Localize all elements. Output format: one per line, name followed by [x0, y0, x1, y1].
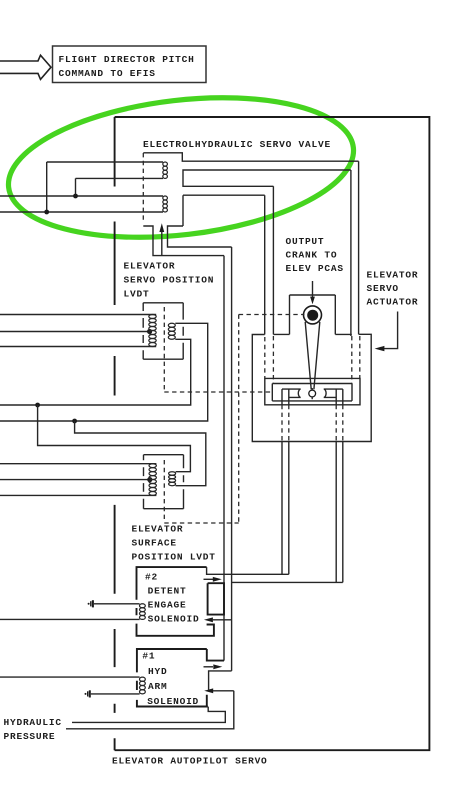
- wire: LVDT1 secondary bottom return: [0, 339, 191, 405]
- actuator outer body steps: [252, 334, 371, 441]
- coil L2: torque motor lower winding: [163, 196, 168, 212]
- coil: LVDT2 secondary: [169, 472, 176, 486]
- svg-text:ELEVATOR: ELEVATOR: [132, 524, 184, 535]
- svg-text:SOLENOID: SOLENOID: [147, 696, 199, 707]
- wire: valve output B: [272, 186, 274, 383]
- svg-text:ELEV PCAS: ELEV PCAS: [286, 263, 344, 274]
- green highlight ellipse annotation: [1, 81, 361, 255]
- connector stub: [85, 690, 91, 697]
- svg-text:SERVO POSITION: SERVO POSITION: [124, 275, 215, 286]
- wire: branch to LVDT2 secondary top: [38, 405, 191, 472]
- valve body outline top: [143, 153, 358, 161]
- svg-text:ELECTROLHYDRAULIC SERVO VALVE: ELECTROLHYDRAULIC SERVO VALVE: [143, 139, 331, 150]
- label: HYDRAULIC PRESSURE: [4, 717, 62, 742]
- wire: valve output A: [264, 195, 266, 378]
- piston seal left flag: [282, 389, 301, 397]
- cylinder outer: [265, 378, 360, 404]
- arrow: hyd flow out of #1: [204, 664, 223, 669]
- label: OUTPUT CRANK TO ELEV PCAS: [286, 236, 344, 274]
- coil: solenoid #1: [0, 677, 145, 694]
- rod links solid: [282, 442, 343, 583]
- mech link dashed: LVDT1 core: [164, 307, 272, 392]
- arrow: hyd flow into #1: [204, 688, 234, 693]
- svg-text:ARM: ARM: [148, 681, 167, 692]
- valve bottom step left: [143, 226, 224, 256]
- svg-text:#1: #1: [142, 650, 155, 661]
- mech link dashed: LVDT2 core: [163, 460, 165, 522]
- svg-text:PRESSURE: PRESSURE: [4, 731, 56, 742]
- svg-text:ENGAGE: ENGAGE: [148, 599, 187, 610]
- arrow: hyd flow into #2: [204, 617, 232, 622]
- wire: LVDT1 primary top: [0, 314, 156, 316]
- coil: solenoid #2: [0, 604, 145, 620]
- label: ELEVATOR SERVO POSITION LVDT: [124, 261, 215, 300]
- wire: LVDT2 primary bottom: [0, 494, 156, 496]
- node junction: [72, 419, 77, 424]
- wire: branch to LVDT2 secondary bottom: [75, 421, 206, 486]
- wire: left input bus lower: [0, 211, 163, 213]
- svg-text:#2: #2: [145, 571, 158, 582]
- LVDT2 bracket: [144, 455, 184, 509]
- valve port lines: [183, 170, 351, 186]
- solenoid #1 valve notch (riser2 path): [209, 671, 232, 690]
- node junction: [35, 403, 40, 408]
- wire: LVDT2 primary center tap: [0, 479, 150, 481]
- wire: LVDT1 primary center tap: [0, 331, 150, 333]
- svg-text:ACTUATOR: ACTUATOR: [367, 297, 419, 308]
- mech link dashed: feedback path: [164, 315, 304, 524]
- flapper feedback arrow: [159, 223, 164, 255]
- wire: to valve coil L1 top: [47, 161, 163, 163]
- block arrow: flight director pitch output: [0, 55, 51, 79]
- rod bus lower: [232, 581, 343, 583]
- wire: valve output D: [359, 161, 360, 378]
- piston rods (dashed through body): [282, 405, 343, 442]
- wire: valve output C: [350, 170, 353, 384]
- crank pivot: [304, 306, 322, 324]
- svg-text:SOLENOID: SOLENOID: [148, 613, 200, 624]
- wire: hydraulic pressure line 1: [72, 707, 225, 723]
- coil: LVDT1 secondary: [168, 323, 175, 339]
- svg-text:SERVO: SERVO: [367, 283, 399, 294]
- svg-text:DETENT: DETENT: [148, 585, 187, 596]
- actuator pointer arrow: [375, 312, 398, 352]
- crank arm: [305, 322, 320, 390]
- label: ELEVATOR SURFACE POSITION LVDT: [132, 524, 216, 563]
- node junction on coil: [147, 329, 152, 334]
- wire: branch riser: [46, 162, 48, 212]
- connector stub: [88, 600, 94, 607]
- box: FLIGHT DIRECTOR PITCH COMMAND TO EFIS: [53, 46, 207, 83]
- svg-text:HYD: HYD: [148, 666, 167, 677]
- valve bottom step right: [168, 226, 232, 247]
- svg-text:ELEVATOR: ELEVATOR: [367, 270, 419, 281]
- svg-text:POSITION LVDT: POSITION LVDT: [132, 552, 216, 563]
- wire: hydraulic pressure line 2: [66, 691, 234, 729]
- LVDT1 bracket: [143, 303, 183, 359]
- coil L1: torque motor upper winding: [163, 162, 168, 178]
- svg-text:OUTPUT: OUTPUT: [286, 236, 325, 247]
- rod bus upper: [207, 567, 289, 574]
- piston rods inside cylinder: [282, 389, 343, 405]
- svg-text:LVDT: LVDT: [124, 289, 150, 300]
- piston center: [309, 388, 316, 399]
- svg-text:CRANK TO: CRANK TO: [286, 249, 338, 260]
- node junction: [44, 210, 49, 215]
- label: ELEVATOR SERVO ACTUATOR: [367, 270, 419, 308]
- svg-text:COMMAND TO EFIS: COMMAND TO EFIS: [59, 68, 156, 79]
- output crank pointer arrow (down): [310, 281, 315, 304]
- wire: branch riser: [75, 178, 77, 196]
- svg-text:HYDRAULIC: HYDRAULIC: [4, 717, 62, 728]
- box: #1 hyd arm solenoid: [137, 649, 224, 707]
- enclosure box: elevator autopilot servo: [115, 117, 430, 750]
- wire: LVDT2 primary top: [0, 463, 156, 465]
- wire: left input bus upper: [0, 195, 163, 197]
- node junction: [73, 194, 78, 199]
- box: #2 detent engage solenoid: [137, 567, 214, 636]
- piston seal right flag: [324, 389, 343, 397]
- solenoid #2 valve notch: [208, 583, 224, 614]
- coil: LVDT2 primary: [149, 464, 156, 496]
- wire: to valve coil L1 bottom: [76, 177, 164, 179]
- wire: hydraulic riser 2: [231, 247, 233, 671]
- wire: LVDT1 primary bottom: [0, 346, 156, 348]
- wire: hydraulic riser 1: [223, 256, 225, 661]
- cylinder inner walls: [272, 384, 352, 401]
- svg-text:SURFACE: SURFACE: [132, 538, 177, 549]
- svg-text:FLIGHT DIRECTOR PITCH: FLIGHT DIRECTOR PITCH: [59, 54, 195, 65]
- node junction on coil: [147, 477, 152, 482]
- arrow: hyd flow out of #2: [204, 577, 222, 582]
- actuator housing: [273, 295, 351, 334]
- coil: LVDT1 primary: [149, 315, 156, 347]
- svg-text:ELEVATOR: ELEVATOR: [124, 261, 176, 272]
- svg-text:ELEVATOR AUTOPILOT SERVO: ELEVATOR AUTOPILOT SERVO: [112, 756, 268, 767]
- wire: LVDT1 secondary top return: [0, 323, 208, 421]
- valve core dashed: [142, 153, 144, 223]
